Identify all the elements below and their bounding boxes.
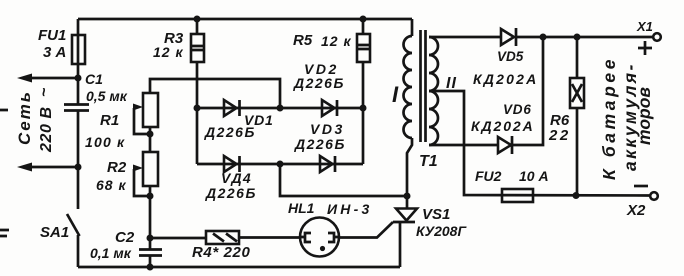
node row2 mid / bridge output <box>277 161 284 168</box>
node bridge left / row1 <box>194 105 201 112</box>
svg-text:R2: R2 <box>107 159 127 176</box>
capacitor C1 <box>64 105 89 111</box>
wire R5 to bridge right column <box>362 62 365 164</box>
node C2 on rail <box>147 264 154 271</box>
svg-text:торов: торов <box>634 87 654 145</box>
svg-text:К батарее: К батарее <box>599 56 619 180</box>
node VD6 join <box>540 34 547 41</box>
wire diode row 2 <box>197 163 363 166</box>
switch SA1 <box>67 214 80 236</box>
svg-text:Д226Б: Д226Б <box>204 124 256 140</box>
wire left vertical mains branch <box>77 19 80 104</box>
wire to switch <box>77 167 80 209</box>
svg-text:VD3: VD3 <box>310 121 345 137</box>
wire secondary bottom lead <box>429 144 497 147</box>
diode VD3 <box>320 156 333 172</box>
R1 wiper arrow <box>133 104 143 111</box>
node R1 bottom <box>147 131 154 138</box>
svg-text:R4* 220: R4* 220 <box>192 244 250 261</box>
svg-text:VD6: VD6 <box>503 102 532 117</box>
svg-text:I: I <box>392 82 399 107</box>
svg-text:Д226Б: Д226Б <box>205 185 257 201</box>
mains upper arrow <box>17 74 32 83</box>
wire R1 top lead and line to VD1 cathode node <box>150 79 280 108</box>
svg-text:68 к: 68 к <box>96 177 127 193</box>
HL1 left electrode <box>300 233 311 242</box>
mains lower arrow <box>17 163 32 172</box>
minus sign <box>634 185 648 188</box>
wire diode row 1 <box>197 107 363 110</box>
svg-text:С1: С1 <box>85 71 103 87</box>
diode VD1 <box>224 100 237 116</box>
transformer T1 core <box>421 30 426 142</box>
wire switch to bottom rail <box>77 235 80 267</box>
svg-text:3 А: 3 А <box>43 44 66 61</box>
svg-text:Д226Б: Д226Б <box>294 136 346 152</box>
wire HL1 to VS1 gate <box>339 222 393 238</box>
resistor R4 <box>206 231 239 244</box>
fuse FU1 <box>72 35 85 64</box>
svg-text:SA1: SA1 <box>40 224 69 241</box>
svg-text:Д226Б: Д226Б <box>293 75 345 91</box>
resistor R3 <box>196 19 199 34</box>
node row1 mid <box>277 105 284 112</box>
HL1 dot electrode <box>320 246 325 251</box>
wire VD6 to join column <box>512 37 543 145</box>
wire mains lower lead <box>26 166 78 169</box>
svg-text:~: ~ <box>36 87 53 97</box>
potentiometer R2 <box>143 152 158 186</box>
diode VD6 <box>498 137 511 153</box>
resistor R6 <box>576 37 579 196</box>
svg-text:Сеть: Сеть <box>15 90 34 145</box>
node R6 top <box>574 34 581 41</box>
diode VD5 <box>501 29 514 45</box>
R2 wiper arrow <box>133 165 143 172</box>
terminal X2 <box>650 192 658 200</box>
resistor R5 <box>360 16 367 23</box>
wire C1 to lower mains node <box>77 111 80 168</box>
svg-text:Х2: Х2 <box>626 202 646 219</box>
svg-text:Х1: Х1 <box>636 19 653 34</box>
svg-text:II: II <box>446 75 457 92</box>
svg-text:FU1: FU1 <box>38 27 66 44</box>
wire R4 line <box>150 236 300 239</box>
diode VD4 <box>224 156 237 172</box>
svg-text:КД202А: КД202А <box>471 118 535 134</box>
HL1 right electrode <box>328 233 339 242</box>
svg-text:R5: R5 <box>293 32 313 49</box>
fuse FU2 <box>502 189 533 202</box>
transformer T1 primary winding I <box>411 19 414 36</box>
svg-text:КУ208Г: КУ208Г <box>416 223 467 239</box>
neon lamp HL1 <box>300 218 339 257</box>
wire R3 to bridge left column <box>196 62 199 164</box>
svg-text:VD5: VD5 <box>497 49 524 64</box>
wire R1 to R2 <box>149 127 152 152</box>
svg-text:0,5 мк: 0,5 мк <box>86 88 128 104</box>
svg-text:С2: С2 <box>115 229 135 246</box>
wire bottom rail <box>78 266 400 269</box>
svg-text:0,1 мк: 0,1 мк <box>90 245 132 261</box>
svg-text:ИН-3: ИН-3 <box>327 201 372 217</box>
svg-text:Т1: Т1 <box>419 153 438 170</box>
svg-text:R1: R1 <box>100 112 119 129</box>
terminal X1 <box>653 33 661 41</box>
plus sign <box>638 41 652 55</box>
svg-text:FU2: FU2 <box>475 168 502 184</box>
thyristor VS1 <box>406 196 409 209</box>
svg-text:КД202А: КД202А <box>473 71 538 87</box>
node mains lower terminal <box>75 164 82 171</box>
svg-text:22: 22 <box>548 127 571 144</box>
node C2 / R4 junction <box>147 235 154 242</box>
wire VD5 to X1 <box>516 36 653 39</box>
node VS1 anode <box>404 193 411 200</box>
diode VD2 <box>322 100 335 116</box>
wire secondary top lead <box>429 36 501 39</box>
svg-text:10 А: 10 А <box>519 168 549 184</box>
node row1 right / R5 column <box>360 105 367 112</box>
svg-text:HL1: HL1 <box>288 200 315 216</box>
wire C2 to bottom rail <box>149 256 152 268</box>
capacitor C2 <box>139 250 162 256</box>
node mains upper terminal <box>75 75 82 82</box>
svg-text:12 к: 12 к <box>321 33 352 49</box>
svg-text:100 к: 100 к <box>85 134 125 150</box>
node X2 junction <box>573 192 580 199</box>
svg-text:VS1: VS1 <box>422 206 450 223</box>
svg-text:12 к: 12 к <box>153 44 184 60</box>
wire bridge output to VS1 anode <box>280 164 407 196</box>
wire secondary tap to FU2 <box>429 91 650 196</box>
potentiometer R1 <box>143 93 158 127</box>
node R2 bottom <box>147 193 154 200</box>
wire top rail <box>78 18 412 21</box>
svg-text:220 В: 220 В <box>38 106 55 153</box>
wire R2 down to C2 <box>149 186 152 249</box>
stray scan marks <box>0 110 9 236</box>
wire mains upper lead <box>26 77 78 80</box>
transformer T1 secondary winding II <box>429 37 438 145</box>
svg-text:VД4: VД4 <box>221 170 252 186</box>
